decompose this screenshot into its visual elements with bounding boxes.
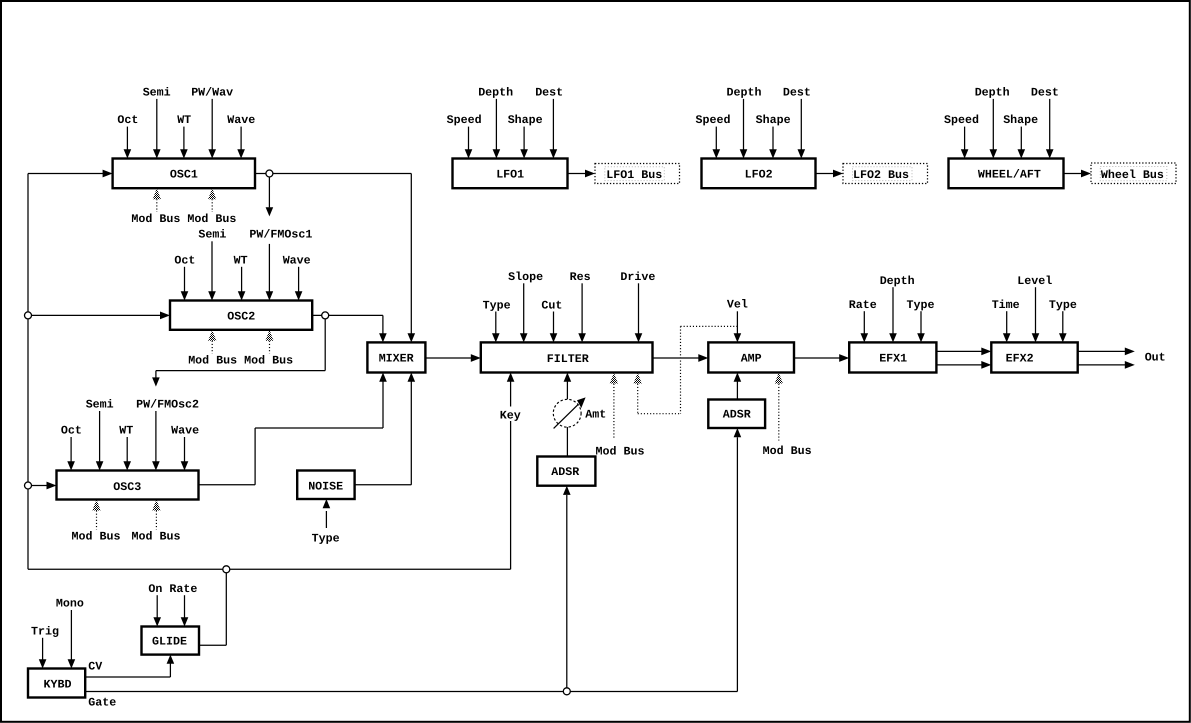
arrowhead into LFO1 Bus: [585, 170, 595, 178]
block LFO1: [453, 159, 568, 189]
dither arrowhead into FILTER bottom Mod Bus 2: [634, 373, 642, 384]
svg-text:Mod Bus Mod Bus: Mod Bus Mod Bus: [131, 212, 236, 226]
arrowhead into filter ADSR bottom: [563, 486, 571, 495]
svg-text:Shape: Shape: [756, 113, 791, 127]
block OSC2: [170, 301, 312, 330]
wire: NOISE Type stem: [325, 511, 327, 528]
pin arrow Wave (OSC1): [240, 127, 242, 150]
dotted wire: OSC1 Mod Bus stem 1: [156, 199, 158, 212]
pin arrow Shape (LFO2): [772, 127, 774, 150]
node: left bus to OSC2: [25, 312, 32, 319]
svg-text:Mod Bus: Mod Bus: [763, 444, 812, 458]
svg-text:Shape: Shape: [1003, 113, 1038, 127]
svg-text:Wheel Bus: Wheel Bus: [1101, 168, 1164, 182]
pin arrow WT (OSC3): [126, 437, 128, 462]
svg-text:Depth: Depth: [975, 85, 1010, 99]
dotted wire: FILTER Mod Bus 2 stem: [637, 384, 639, 414]
svg-text:OSC1: OSC1: [170, 168, 198, 182]
svg-text:Wave: Wave: [227, 113, 255, 127]
svg-text:LFO2 Bus: LFO2 Bus: [853, 168, 909, 182]
block EFX1: [849, 342, 936, 372]
svg-text:Oct: Oct: [174, 253, 195, 267]
svg-text:On Rate: On Rate: [148, 582, 197, 596]
svg-text:Time: Time: [992, 298, 1020, 312]
wire: knob to FILTER bottom: [566, 382, 568, 400]
svg-text:OSC3: OSC3: [113, 480, 141, 494]
svg-text:EFX2: EFX2: [1006, 351, 1034, 365]
svg-text:Depth: Depth: [478, 85, 513, 99]
pin arrow Rate (EFX1): [863, 311, 865, 333]
pin arrow Oct (OSC2): [184, 267, 186, 292]
dotted wire: FILTER Mod Bus 1 stem: [613, 384, 615, 440]
svg-text:PW/Wav: PW/Wav: [191, 85, 233, 99]
svg-text:WT: WT: [177, 113, 191, 127]
pin arrow Mono (KYBD): [70, 610, 72, 660]
svg-text:FILTER: FILTER: [547, 352, 589, 366]
svg-text:Speed: Speed: [944, 113, 979, 127]
pin arrow Cut (FILTER): [553, 312, 555, 334]
svg-text:Dest: Dest: [783, 85, 811, 99]
svg-text:Mod Bus: Mod Bus: [596, 444, 645, 458]
wire: OSC3 output up: [254, 428, 256, 485]
svg-text:PW/FMOsc2: PW/FMOsc2: [136, 397, 199, 411]
wire: EFX1 output upper to EFX2: [936, 350, 981, 352]
arrowhead into OSC1 left: [103, 170, 113, 178]
block GLIDE: [142, 627, 200, 655]
dotted wire: OSC3 Mod Bus stem 1: [96, 511, 98, 530]
pin arrow Type (EFX2): [1062, 311, 1064, 333]
pin arrow WT (OSC2): [241, 267, 243, 292]
pin arrow Dest (LFO2): [800, 99, 802, 150]
arrowhead into OSC2 left: [160, 312, 170, 320]
wire: FILTER output to AMP: [653, 357, 699, 359]
wire: PW/FMOsc2 stem into OSC3: [155, 411, 157, 462]
wire: OSC3 input from bus node: [32, 485, 48, 487]
pin arrow Depth (WHEEL/AFT): [992, 99, 994, 150]
wire: Key line up to FILTER bottom: [510, 382, 512, 570]
block NOISE: [297, 471, 354, 500]
pin arrow Speed (WHEEL/AFT): [964, 127, 966, 150]
dotted wire: Vel route vertical: [680, 326, 682, 413]
block OSC1: [113, 159, 255, 189]
pin arrow Time (EFX2): [1006, 311, 1008, 333]
pin arrow WT (OSC1): [183, 127, 185, 150]
wire: NOISE up into MIXER bottom: [410, 382, 412, 485]
dither arrowhead into OSC2 bottom Mod Bus 2: [265, 330, 273, 341]
bus box LFO2 Bus (dotted): [843, 164, 928, 184]
svg-text:Depth: Depth: [880, 274, 915, 288]
pin arrow Semi (OSC3): [99, 411, 101, 462]
block FILTER: [481, 342, 653, 372]
svg-text:Key: Key: [500, 409, 521, 423]
node: left bus to OSC3: [25, 482, 32, 489]
pin arrow Drive (FILTER): [638, 283, 640, 333]
svg-text:Level: Level: [1017, 274, 1052, 288]
arrowhead into OSC3 left: [47, 482, 57, 490]
svg-text:Wave: Wave: [283, 253, 311, 267]
svg-text:Wave: Wave: [171, 423, 199, 437]
block AMP: [708, 342, 794, 372]
arrowhead into AMP top (Vel): [734, 333, 742, 342]
svg-text:Gate: Gate: [88, 696, 116, 710]
wire: OSC2 branch down: [324, 319, 326, 371]
arrowhead into MIXER bottom (NOISE): [408, 373, 416, 382]
wire: PW/FMOsc1 stem into OSC2: [268, 244, 270, 292]
svg-text:Type: Type: [483, 298, 511, 312]
block OSC3: [57, 471, 199, 500]
svg-text:Semi: Semi: [143, 85, 171, 99]
dither arrowhead into OSC3 bottom Mod Bus 2: [152, 500, 160, 511]
wire: left CV bus vertical (feeds OSC1/OSC2/OSC3): [27, 174, 29, 570]
wire: amp ADSR to AMP bottom: [736, 382, 738, 400]
wire: OSC1 input from bus: [28, 173, 104, 175]
wire: AMP output to EFX1: [794, 357, 840, 359]
bus box Wheel Bus (dotted): [1091, 163, 1176, 184]
pin arrow Rate (GLIDE): [184, 595, 186, 617]
svg-text:KYBD: KYBD: [44, 677, 72, 691]
svg-text:Out: Out: [1145, 351, 1166, 365]
wire: OSC1 branch down to OSC2 PW/FM input: [268, 177, 270, 207]
svg-text:Shape: Shape: [508, 113, 543, 127]
variable knob circle (Amt): [553, 399, 581, 427]
svg-text:WT: WT: [234, 253, 248, 267]
dotted wire: OSC2 Mod Bus stem 2: [269, 341, 271, 354]
pin arrow Res (FILTER): [581, 283, 583, 333]
pin arrow Trig (KYBD): [42, 638, 44, 660]
pin arrow On (GLIDE): [156, 595, 158, 617]
wire: short drop: [155, 371, 157, 378]
svg-text:Vel: Vel: [727, 298, 748, 312]
arrowhead into NOISE bottom (Type): [323, 499, 331, 508]
svg-text:Depth: Depth: [727, 85, 762, 99]
svg-text:Res: Res: [570, 270, 591, 284]
pin arrow Semi (OSC2): [211, 241, 213, 291]
svg-text:Type: Type: [312, 532, 340, 546]
arrowhead into Wheel Bus: [1081, 170, 1091, 178]
svg-text:Mod Bus Mod Bus: Mod Bus Mod Bus: [188, 354, 293, 368]
arrowhead Out lower: [1125, 361, 1135, 369]
svg-text:Type: Type: [1049, 298, 1077, 312]
arrowhead into MIXER top (OSC1): [408, 333, 416, 342]
block ADSR (filter): [537, 457, 595, 486]
arrowhead into LFO2 Bus: [833, 170, 843, 178]
svg-text:MIXER: MIXER: [379, 352, 414, 366]
svg-text:WT: WT: [119, 423, 133, 437]
block WHEEL/AFT: [949, 159, 1064, 189]
arrowhead down above PW/FMOsc2 label: [152, 377, 160, 386]
arrowhead into AMP bottom (ADSR): [734, 373, 742, 382]
bus box LFO1 Bus (dotted): [595, 164, 680, 184]
wire: filter ADSR gate stem down to gate bus: [566, 495, 568, 691]
arrowhead into EFX2 left lower: [981, 361, 991, 369]
wire: OSC2 branch left to OSC3 PW/FM: [156, 370, 325, 372]
block LFO2: [702, 159, 816, 189]
svg-text:Amt: Amt: [585, 407, 606, 421]
dotted wire: Vel route top horizontal to Vel stem: [681, 325, 738, 327]
pin arrow Type (EFX1): [920, 311, 922, 333]
dotted wire: OSC3 Mod Bus stem 2: [155, 511, 157, 530]
pin arrow Oct (OSC1): [126, 127, 128, 150]
pin arrow Dest (LFO1): [552, 99, 554, 150]
svg-text:NOISE: NOISE: [308, 479, 343, 493]
svg-text:Drive: Drive: [620, 270, 655, 284]
pin arrow Speed (LFO2): [715, 127, 717, 150]
pin arrow Speed (LFO1): [468, 127, 470, 150]
svg-text:Speed: Speed: [447, 113, 482, 127]
block ADSR (amp): [708, 400, 765, 429]
pin arrow Dest (WHEEL/AFT): [1049, 99, 1051, 150]
wire: KYBD CV output: [85, 676, 170, 678]
wire: WHEEL/AFT output to Wheel Bus: [1064, 173, 1082, 175]
wire: down into MIXER top at x=383: [382, 315, 384, 334]
wire: EFX2 output upper to Out: [1078, 350, 1126, 352]
svg-text:CV: CV: [88, 660, 102, 674]
pin arrow Shape (LFO1): [523, 127, 525, 150]
svg-text:Mod Bus: Mod Bus: [72, 530, 121, 544]
dither arrowhead into FILTER bottom Mod Bus 1: [610, 373, 618, 384]
wire: KYBD Gate bus: [85, 691, 737, 693]
wire: GLIDE output up to CV bus node: [225, 569, 227, 645]
svg-text:GLIDE: GLIDE: [152, 635, 187, 649]
dither arrowhead into OSC2 bottom Mod Bus 1: [208, 330, 216, 341]
dither arrowhead into OSC1 bottom Mod Bus 2: [208, 188, 216, 199]
pin arrow Oct (OSC3): [70, 437, 72, 462]
arrowhead into EFX2 left upper: [981, 348, 991, 356]
node: OSC2 output junction: [322, 312, 329, 319]
wire: EFX1 output lower to EFX2: [936, 364, 981, 366]
pin arrow Level (EFX2): [1035, 287, 1037, 333]
wire: Vel stem into AMP top: [736, 311, 738, 334]
dither arrowhead into AMP bottom Mod Bus: [775, 373, 783, 384]
pin arrow Depth (LFO1): [495, 99, 497, 150]
svg-text:Mod Bus: Mod Bus: [132, 530, 181, 544]
svg-text:LFO2: LFO2: [745, 168, 773, 182]
wire: OSC2 input from bus node: [32, 314, 162, 316]
svg-text:ADSR: ADSR: [551, 465, 579, 479]
pin arrow Depth (LFO2): [743, 99, 745, 150]
wire: NOISE output right: [355, 484, 412, 486]
pin arrow PW/Wav (OSC1): [211, 99, 213, 150]
pin arrow Slope (FILTER): [523, 283, 525, 333]
arrowhead into FILTER bottom (Key): [507, 373, 515, 382]
wire: OSC1 output to MIXER column: [255, 173, 411, 175]
svg-text:LFO1 Bus: LFO1 Bus: [606, 168, 662, 182]
wire: CV up into GLIDE bottom: [169, 664, 171, 678]
arrowhead into FILTER bottom (Amt): [564, 373, 572, 382]
svg-text:ADSR: ADSR: [723, 408, 751, 422]
svg-text:Mono: Mono: [56, 597, 84, 611]
dotted wire: OSC1 Mod Bus stem 2: [211, 199, 213, 212]
wire: OSC3 up into MIXER bottom: [382, 382, 384, 429]
node: Gate bus / filter ADSR junction: [563, 688, 570, 695]
block MIXER: [367, 342, 425, 372]
block EFX2: [991, 342, 1077, 372]
wire: EFX2 output lower to Out: [1078, 364, 1126, 366]
svg-text:Speed: Speed: [696, 113, 731, 127]
node: CV bus / GLIDE junction: [223, 566, 230, 573]
wire: knob bottom to ADSR top: [566, 427, 568, 457]
svg-text:PW/FMOsc1: PW/FMOsc1: [249, 228, 312, 242]
svg-text:Slope: Slope: [508, 270, 543, 284]
wire: LFO2 output to LFO2 Bus: [816, 173, 834, 175]
svg-text:EFX1: EFX1: [879, 352, 907, 366]
wire: OSC2 output to MIXER column: [312, 314, 383, 316]
svg-text:LFO1: LFO1: [496, 168, 524, 182]
svg-text:Dest: Dest: [535, 85, 563, 99]
dither arrowhead into OSC1 bottom Mod Bus 1: [153, 188, 161, 199]
svg-text:AMP: AMP: [741, 352, 762, 366]
svg-text:Semi: Semi: [86, 397, 114, 411]
arrowhead into GLIDE bottom: [167, 655, 175, 664]
arrowhead into OSC3 top (PW/FMOsc2): [152, 461, 160, 470]
wire: LFO1 output to LFO1 Bus: [568, 173, 586, 175]
arrowhead into AMP left: [698, 354, 708, 362]
pin arrow Type (FILTER): [495, 312, 497, 334]
node: OSC1 output junction: [266, 170, 273, 177]
block KYBD: [28, 669, 85, 698]
pin arrow Wave (OSC3): [184, 437, 186, 462]
wire: down into MIXER top at x=411: [410, 174, 412, 335]
pin arrow Semi (OSC1): [156, 99, 158, 150]
arrowhead into MIXER bottom (OSC3): [379, 373, 387, 382]
arrowhead into FILTER left: [471, 354, 481, 362]
svg-text:WHEEL/AFT: WHEEL/AFT: [978, 167, 1041, 181]
arrowhead down above PW/FMOsc1 label: [266, 207, 274, 216]
svg-text:Trig: Trig: [31, 624, 59, 638]
pin arrow Wave (OSC2): [298, 267, 300, 292]
arrowhead into MIXER top (OSC2): [379, 333, 387, 342]
svg-text:Type: Type: [907, 298, 935, 312]
svg-text:Oct: Oct: [61, 423, 82, 437]
svg-text:Dest: Dest: [1031, 85, 1059, 99]
wire: OSC3 output right: [199, 484, 256, 486]
svg-text:Rate: Rate: [849, 298, 877, 312]
wire: GLIDE output right: [199, 644, 226, 646]
wire: MIXER output to FILTER: [425, 357, 471, 359]
pin arrow Depth (EFX1): [892, 287, 894, 333]
svg-text:Cut: Cut: [541, 298, 562, 312]
pin arrow Shape (WHEEL/AFT): [1020, 127, 1022, 150]
svg-text:Oct: Oct: [117, 113, 138, 127]
wire: OSC3 output right at y=428: [255, 427, 383, 429]
knob diagonal arrow: [554, 404, 579, 428]
dither arrowhead into OSC3 bottom Mod Bus 1: [92, 500, 100, 511]
arrowhead into EFX1 left: [839, 354, 849, 362]
arrowhead into amp ADSR bottom (Gate): [734, 428, 742, 437]
dotted wire: AMP Mod Bus stem: [778, 384, 780, 441]
white backing for Key label: [499, 407, 523, 422]
arrowhead Out upper: [1125, 348, 1135, 356]
svg-text:Semi: Semi: [198, 228, 226, 242]
dotted wire: OSC2 Mod Bus stem 1: [211, 341, 213, 354]
arrowhead into OSC2 top (PW/FMOsc1): [266, 291, 274, 300]
dotted wire: Vel route bottom horizontal: [638, 413, 681, 415]
wire: CV bus horizontal bottom: [28, 568, 511, 570]
svg-text:OSC2: OSC2: [227, 309, 255, 323]
wire: amp ADSR bottom stem to gate bus: [736, 437, 738, 691]
